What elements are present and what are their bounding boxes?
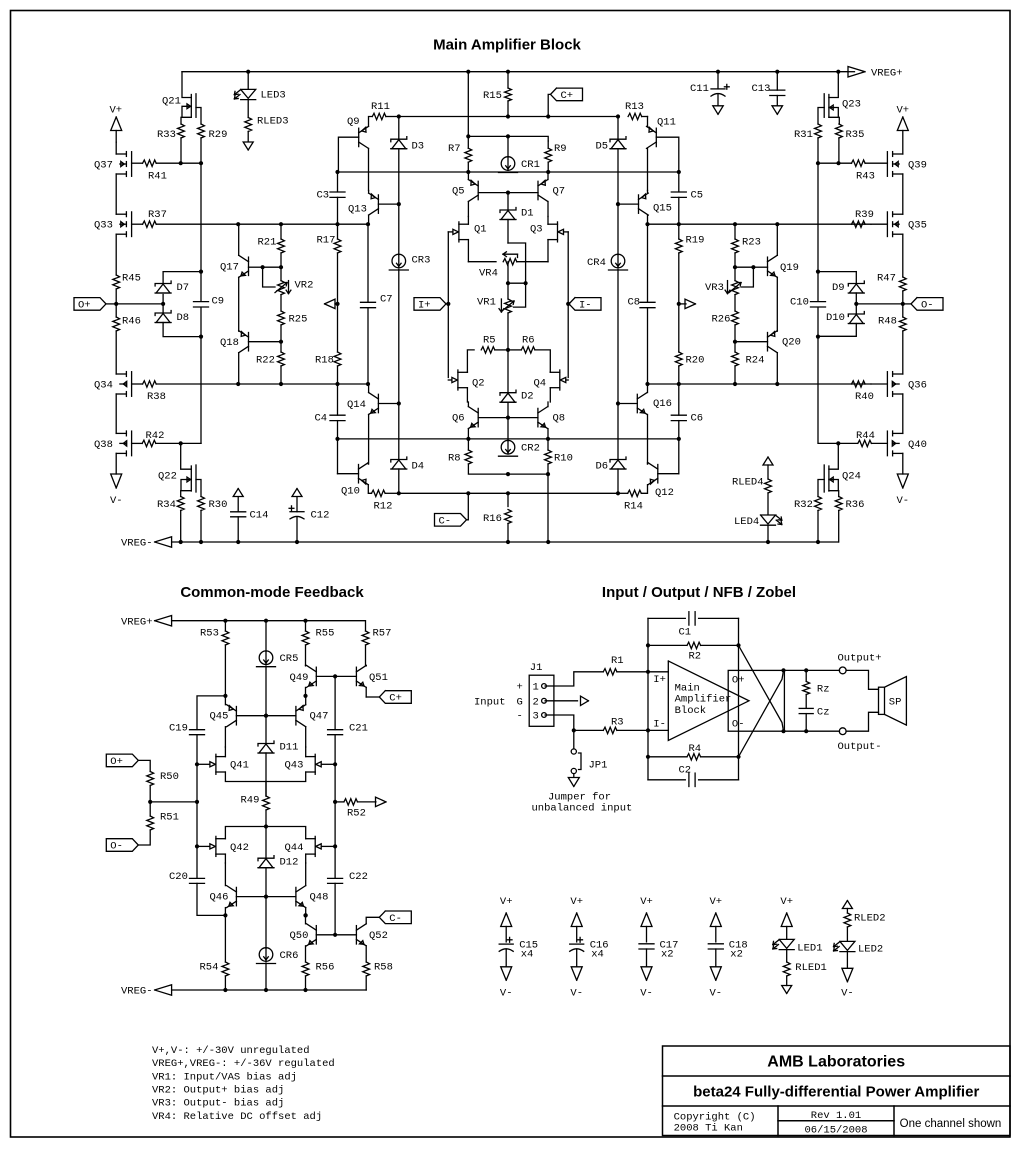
capacitor C13 (776, 72, 778, 90)
potentiometer VR2 (280, 267, 282, 280)
svg-text:Q35: Q35 (908, 220, 927, 232)
resistor R50 (147, 772, 154, 786)
capacitor C7 (367, 224, 369, 302)
svg-text:R45: R45 (122, 273, 141, 285)
svg-text:D10: D10 (826, 312, 845, 324)
capacitor C14 (233, 489, 243, 497)
resistor R14 (628, 490, 642, 496)
svg-text:unbalanced input: unbalanced input (532, 802, 633, 814)
svg-text:RLED4: RLED4 (732, 477, 764, 489)
current source CR4 (617, 204, 619, 255)
svg-text:Q37: Q37 (94, 160, 113, 172)
svg-text:O+: O+ (110, 756, 123, 768)
resistor R53 (224, 621, 226, 631)
offpage arrow right (cmf) (376, 797, 387, 807)
svg-text:D9: D9 (832, 282, 845, 294)
capacitor C11 (polarized) (717, 72, 719, 89)
svg-text:Output+: Output+ (838, 652, 882, 664)
svg-text:Q17: Q17 (220, 262, 239, 274)
capacitor C6 (678, 384, 680, 415)
potentiometer VR3 (734, 267, 736, 280)
svg-text:R24: R24 (746, 355, 765, 367)
resistor R6 (508, 349, 521, 351)
svg-text:VREG-: VREG- (121, 986, 153, 998)
svg-text:CR1: CR1 (521, 159, 540, 171)
resistor R23 (734, 224, 736, 239)
resistor R57 (362, 631, 369, 645)
svg-text:Input / Output / NFB / Zobel: Input / Output / NFB / Zobel (602, 584, 796, 601)
svg-text:C-: C- (439, 515, 452, 527)
svg-text:R11: R11 (371, 101, 390, 113)
resistor R12 (372, 490, 386, 496)
node rail224 left dots (236, 222, 240, 226)
transistor Q20 (767, 333, 769, 351)
svg-text:C8: C8 (628, 297, 641, 309)
resistor R22 (280, 342, 282, 352)
diode D2 (zener) (507, 350, 509, 393)
svg-text:C4: C4 (315, 413, 328, 425)
svg-text:I-: I- (653, 718, 666, 730)
LED LED2 (840, 941, 855, 950)
svg-text:V+,V-: +/-30V unregulated: V+,V-: +/-30V unregulated (152, 1045, 310, 1057)
terminal Output- (839, 728, 846, 735)
resistor R36 (835, 497, 842, 511)
transistor Q16 (636, 394, 638, 412)
transistor Q41 (JFET) (215, 754, 217, 774)
svg-text:R56: R56 (316, 962, 335, 974)
LED LED3 (247, 72, 249, 90)
svg-text:LED4: LED4 (734, 516, 759, 528)
transistor Q45 (235, 707, 237, 725)
svg-text:2: 2 (533, 696, 539, 708)
svg-text:1: 1 (533, 682, 539, 694)
svg-text:Q49: Q49 (290, 672, 309, 684)
output box O+/O- (728, 670, 784, 731)
transistor Q8 (537, 408, 539, 426)
wire Q34 source to Q38 (115, 394, 117, 433)
svg-text:Q45: Q45 (210, 711, 229, 723)
transistor Q33 (131, 212, 133, 237)
resistor R31 (815, 124, 822, 138)
svg-text:Q33: Q33 (94, 220, 113, 232)
resistor RLED3 (245, 118, 252, 132)
transistor Q43 (JFET) (314, 754, 316, 774)
svg-text:R29: R29 (209, 129, 228, 141)
svg-text:SP: SP (889, 696, 902, 708)
svg-text:D11: D11 (280, 742, 299, 754)
capacitor C10 (811, 301, 826, 303)
svg-text:C13: C13 (752, 83, 771, 95)
wire rail y=384 right (648, 383, 872, 385)
resistor R8 (465, 450, 472, 464)
flag C+ (main) (551, 88, 583, 101)
svg-text:Q52: Q52 (369, 930, 388, 942)
svg-text:x2: x2 (661, 949, 674, 961)
transistor Q18 (248, 333, 250, 351)
svg-text:C-: C- (389, 913, 402, 925)
svg-text:R53: R53 (200, 628, 219, 640)
crossover diagonals (739, 645, 784, 731)
diode D8 (zener) (162, 304, 164, 313)
resistor R10 (545, 450, 552, 464)
flag O- (911, 298, 943, 311)
diode D11 (zener) (265, 716, 267, 744)
svg-text:V+: V+ (110, 105, 123, 117)
resistor R54 (222, 962, 229, 976)
svg-text:R46: R46 (122, 316, 141, 328)
transistor Q44 (JFET) (314, 836, 316, 856)
svg-text:D6: D6 (596, 461, 609, 473)
wire R43 row (818, 162, 852, 164)
svg-text:R44: R44 (856, 430, 875, 442)
svg-text:Common-mode Feedback: Common-mode Feedback (180, 584, 364, 601)
amplifier triangle (668, 661, 749, 741)
node VREG- rail dots (179, 540, 183, 544)
svg-text:VREG-: VREG- (121, 538, 153, 550)
svg-text:R10: R10 (554, 453, 573, 465)
svg-text:LED3: LED3 (261, 90, 286, 102)
svg-text:D3: D3 (412, 141, 425, 153)
transistor Q12 (657, 465, 659, 483)
offpage arrow left (x=337) (325, 299, 336, 309)
wire J1 pin2 arrow (545, 700, 577, 702)
svg-text:Q2: Q2 (472, 378, 485, 390)
diode D7 (zener) (162, 295, 164, 304)
svg-text:R6: R6 (522, 335, 535, 347)
svg-text:Q39: Q39 (908, 160, 927, 172)
transistor Q22 (P-MOSFET) (181, 443, 192, 469)
resistor R49 (265, 782, 267, 797)
svg-text:Q1: Q1 (474, 224, 487, 236)
svg-text:AMB Laboratories: AMB Laboratories (767, 1054, 905, 1071)
svg-text:Q12: Q12 (655, 487, 674, 499)
svg-text:Q4: Q4 (534, 378, 547, 390)
wire rail y=224 right (648, 223, 872, 225)
svg-text:Q10: Q10 (341, 486, 360, 498)
svg-text:VR3: Output- bias adj: VR3: Output- bias adj (152, 1098, 284, 1110)
svg-text:-: - (517, 711, 523, 723)
transistor Q50 (315, 926, 317, 944)
svg-text:R50: R50 (160, 771, 179, 783)
svg-text:Q43: Q43 (285, 760, 304, 772)
wire H2b rail (468, 72, 548, 141)
transistor Q3 (JFET) (557, 222, 559, 242)
svg-text:O-: O- (921, 300, 934, 312)
wire Q33 source to R45 (115, 234, 117, 275)
diode D3 (zener) (398, 117, 400, 140)
svg-text:R30: R30 (209, 499, 228, 511)
svg-text:R21: R21 (258, 237, 277, 249)
resistor R21 (280, 224, 282, 239)
resistor R47 (899, 277, 906, 291)
transistor Q24 (P-MOSFET) (829, 443, 838, 469)
svg-text:D2: D2 (521, 391, 534, 403)
svg-text:O-: O- (110, 841, 123, 853)
svg-text:C3: C3 (317, 190, 330, 202)
svg-text:R17: R17 (317, 235, 336, 247)
svg-text:VR4: Relative DC offset adj: VR4: Relative DC offset adj (152, 1111, 322, 1123)
resistor R17 (337, 224, 339, 239)
resistor R24 (734, 342, 736, 352)
wire C19 column mid (196, 764, 198, 846)
transistor Q35 (886, 212, 888, 237)
wire I- gate column (567, 232, 569, 378)
flag I- (569, 298, 601, 311)
capacitor C3 (337, 172, 339, 192)
power symbol V- below RLED3 (243, 142, 253, 150)
wire Q37 source to Q33 (115, 174, 117, 214)
transistor Q14 (377, 394, 379, 412)
transistor Q6 (477, 408, 479, 426)
svg-text:VREG+: VREG+ (871, 67, 903, 79)
transistor Q49 (315, 667, 317, 685)
capacitor C8 (647, 224, 649, 302)
svg-text:G: G (517, 696, 523, 708)
svg-text:Q3: Q3 (530, 224, 543, 236)
svg-text:V+: V+ (710, 896, 723, 908)
svg-text:beta24 Fully-differential Powe: beta24 Fully-differential Power Amplifie… (693, 1084, 979, 1101)
svg-text:Q34: Q34 (94, 380, 113, 392)
wire C21 column mid (334, 764, 336, 846)
speaker SP (846, 670, 878, 689)
resistor R44 (858, 440, 872, 446)
svg-text:RLED1: RLED1 (795, 962, 827, 974)
svg-text:R9: R9 (554, 143, 567, 155)
title block (663, 1046, 1011, 1136)
resistor R35 (836, 124, 843, 138)
svg-text:R51: R51 (160, 812, 179, 824)
svg-text:C9: C9 (212, 296, 225, 308)
svg-text:Q24: Q24 (842, 471, 861, 483)
wire rail y=439 (338, 438, 679, 440)
svg-text:Q6: Q6 (452, 413, 465, 425)
svg-text:O+: O+ (78, 300, 91, 312)
resistor R48 (902, 304, 904, 317)
transistor Q13 (377, 195, 379, 213)
wire I+ gate column (447, 232, 449, 378)
wire R53 bottom to C19 column (197, 696, 225, 730)
wire C9 column to R42 row (181, 442, 201, 444)
capacitor C1 (648, 617, 685, 619)
transistor Q34 (131, 372, 133, 397)
svg-text:V-: V- (500, 988, 513, 1000)
transistor Q51 (355, 667, 357, 685)
capacitor C19 (190, 729, 205, 731)
svg-text:One channel shown: One channel shown (900, 1118, 1002, 1130)
svg-text:R19: R19 (686, 235, 705, 247)
resistor R11 (372, 113, 386, 119)
power symbol V- (right) (897, 474, 908, 488)
svg-text:R54: R54 (200, 962, 219, 974)
svg-text:D1: D1 (521, 208, 534, 220)
capacitor Cz (799, 707, 813, 709)
diode D12 (zener) (265, 827, 267, 859)
diode D9 (zener) (818, 271, 856, 273)
resistor R2 (648, 644, 687, 646)
svg-text:Main Amplifier Block: Main Amplifier Block (433, 37, 581, 54)
svg-text:V+: V+ (500, 896, 513, 908)
svg-text:CR4: CR4 (587, 257, 606, 269)
resistor R25 (280, 295, 282, 311)
capacitor C4 (337, 384, 339, 415)
resistor R56 (302, 962, 309, 976)
svg-text:R1: R1 (611, 655, 624, 667)
svg-text:VR1: VR1 (477, 297, 496, 309)
potentiometer VR1 (507, 262, 509, 284)
wire Q33 gate rail y=224 (132, 223, 143, 225)
resistor Rz (805, 670, 807, 681)
svg-text:V-: V- (570, 988, 583, 1000)
wire Q46 collector junction to R54 (224, 915, 226, 962)
svg-text:J1: J1 (530, 662, 543, 674)
resistor R42 (142, 440, 156, 446)
svg-text:CR2: CR2 (521, 443, 540, 455)
transistor Q10 (358, 465, 360, 483)
resistor R29 (198, 124, 205, 138)
flag C+ (cmf) (379, 691, 411, 704)
transistor Q19 (767, 257, 769, 275)
wire R10 column to VREG- (547, 474, 549, 542)
svg-text:D5: D5 (596, 141, 609, 153)
svg-text:JP1: JP1 (589, 759, 608, 771)
wire VREG+ top rail (182, 71, 848, 73)
transistor Q23 (P-MOSFET) (829, 72, 838, 98)
power flag VREG+ (848, 67, 865, 78)
svg-text:x2: x2 (730, 949, 743, 961)
wire D9/D10 to O- (856, 303, 903, 305)
connector J1 (529, 675, 554, 726)
transistor Q42 (JFET) (215, 836, 217, 856)
resistor R1 (603, 669, 617, 675)
svg-text:RLED3: RLED3 (257, 116, 289, 128)
resistor RLED4 (765, 479, 772, 493)
resistor R51 (149, 802, 151, 816)
svg-text:O+: O+ (732, 675, 745, 687)
capacitor C21 (334, 676, 336, 729)
resistor RLED2 column (842, 901, 852, 909)
svg-text:C2: C2 (679, 765, 692, 777)
flag O+ (cmf) (106, 754, 138, 767)
svg-text:R3: R3 (611, 717, 624, 729)
svg-text:R16: R16 (483, 513, 502, 525)
svg-text:R36: R36 (846, 499, 865, 511)
transistor Q9 (358, 128, 360, 146)
transistor Q39 (886, 152, 888, 177)
svg-text:Q15: Q15 (653, 203, 672, 215)
diode D6 (zener) (617, 404, 619, 460)
svg-text:Output-: Output- (838, 741, 882, 753)
wire V- below Q40 (902, 453, 904, 474)
node O+ junction (114, 302, 118, 306)
svg-text:R32: R32 (794, 499, 813, 511)
wire R12-R14 rail y=493 (399, 492, 618, 494)
transistor Q7 (537, 181, 539, 199)
resistor R46 (115, 304, 117, 317)
resistor R32 (815, 497, 822, 511)
capacitor C22 (334, 846, 336, 878)
diode D5 (zener) (617, 117, 619, 140)
svg-text:R15: R15 (483, 90, 502, 102)
svg-text:Main: Main (675, 682, 700, 694)
wire Q42/Q44 upper bus (225, 827, 305, 839)
wire Q37 gate / R41 (132, 162, 143, 164)
resistor R45 (113, 275, 120, 289)
svg-text:Q13: Q13 (348, 204, 367, 216)
wire NFB left vertical (647, 618, 649, 779)
transistor Q52 (355, 926, 357, 944)
resistor R26 (734, 295, 736, 311)
resistor R7 (467, 136, 469, 148)
svg-text:Q8: Q8 (553, 413, 566, 425)
svg-text:V-: V- (640, 988, 653, 1000)
svg-text:R37: R37 (148, 209, 167, 221)
svg-text:R25: R25 (289, 314, 308, 326)
flag C- (main) (435, 514, 467, 527)
svg-text:C14: C14 (250, 510, 269, 522)
svg-text:Q11: Q11 (657, 117, 676, 129)
flag I+ (414, 298, 446, 311)
wire C10 column (817, 163, 819, 301)
svg-text:R22: R22 (256, 355, 275, 367)
power symbol V- (left) (111, 474, 122, 488)
svg-text:+: + (517, 682, 523, 694)
svg-text:R55: R55 (316, 628, 335, 640)
svg-text:R52: R52 (347, 808, 366, 820)
transistor Q48 (295, 887, 297, 905)
svg-text:R33: R33 (157, 129, 176, 141)
svg-text:C5: C5 (691, 190, 704, 202)
offpage arrow right (x=679) (685, 299, 696, 309)
current source CR1 (507, 136, 509, 157)
svg-text:V+: V+ (640, 896, 653, 908)
resistor R18 (337, 304, 339, 352)
wire J1 pin3 to R3 (545, 714, 554, 716)
svg-text:VREG+: VREG+ (121, 616, 153, 628)
transistor Q38 (131, 431, 133, 456)
resistor R43 (852, 160, 866, 166)
svg-text:R40: R40 (855, 391, 874, 403)
svg-text:V+: V+ (780, 896, 793, 908)
svg-text:R42: R42 (146, 430, 165, 442)
svg-text:V+: V+ (570, 896, 583, 908)
svg-text:Q16: Q16 (653, 398, 672, 410)
svg-text:I-: I- (579, 300, 592, 312)
wire Q35 source to R47 (902, 234, 904, 277)
svg-text:V-: V- (710, 988, 723, 1000)
svg-text:I+: I+ (418, 300, 431, 312)
resistor R58 (363, 962, 370, 976)
svg-text:CR3: CR3 (412, 255, 431, 267)
svg-text:O-: O- (732, 718, 745, 730)
resistor R5 (467, 350, 474, 372)
node top rail junctions (246, 70, 250, 74)
svg-text:R12: R12 (374, 501, 393, 513)
resistor RLED1 (783, 962, 790, 976)
svg-text:R43: R43 (856, 170, 875, 182)
resistor R52 (333, 800, 337, 804)
diode D10 (zener) (855, 304, 857, 314)
svg-text:VR2: VR2 (295, 280, 314, 292)
transistor Q36 (886, 372, 888, 397)
svg-text:R47: R47 (877, 273, 896, 285)
wire J1 pin1 to R1 (545, 685, 554, 687)
svg-text:R35: R35 (846, 129, 865, 141)
svg-text:C21: C21 (349, 723, 368, 735)
flag O- (cmf) (106, 839, 138, 852)
svg-text:Q41: Q41 (230, 760, 249, 772)
svg-text:R14: R14 (624, 501, 643, 513)
svg-text:Q7: Q7 (553, 186, 566, 198)
